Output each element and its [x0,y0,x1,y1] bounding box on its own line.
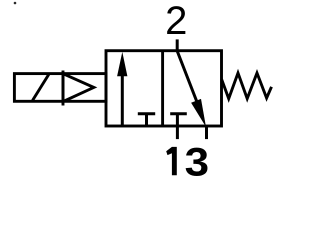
svg-text:3: 3 [185,139,209,184]
svg-text:2: 2 [165,0,187,43]
